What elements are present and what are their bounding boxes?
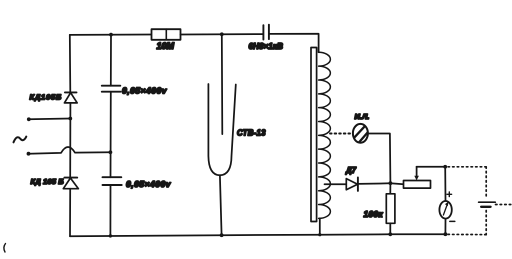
- wire resistor bottom to rail: [389, 223, 391, 234]
- wire meter bottom lead: [444, 219, 446, 234]
- wire top rail middle segment: [181, 33, 264, 35]
- wire capacitor column middle: [110, 92, 112, 178]
- svg-text:0,05×400v: 0,05×400v: [126, 179, 172, 189]
- wire dashed battery loop top: [448, 166, 486, 168]
- wire top rail right segment to transformer: [269, 34, 319, 53]
- wire dashed battery loop right upper: [485, 167, 487, 199]
- wire dashed battery loop right lower: [485, 211, 487, 235]
- wire transformer tap to diode Д7: [325, 183, 347, 185]
- svg-text:10М: 10М: [157, 41, 175, 51]
- node junction top of tube electrode: [220, 32, 224, 36]
- capacitor 0,05×400v upper: [102, 86, 168, 96]
- wire left column between diodes: [69, 103, 71, 178]
- node upper input terminal: [27, 117, 31, 121]
- wire capacitor column bottom: [109, 185, 111, 236]
- wire wiper to meter junction: [417, 166, 446, 168]
- wire left column: [69, 35, 72, 92]
- wire meter top lead: [444, 167, 446, 201]
- node junction bottom capacitor column: [109, 234, 112, 237]
- node junction diode/lamp/resistor: [389, 181, 393, 185]
- stray pen mark bottom left: [4, 244, 6, 253]
- lamp И.Л.: [350, 112, 370, 149]
- tube СТВ-13 envelope: [208, 84, 266, 175]
- wire lower terminal with hop over left column: [29, 147, 111, 154]
- wire junction down to resistor 100к: [389, 183, 391, 194]
- capacitor 6Н8×1кВ: [249, 25, 284, 51]
- transformer core: [311, 48, 317, 222]
- node junction between diodes: [68, 117, 72, 121]
- diode Д7: [345, 166, 358, 191]
- battery GB: [479, 202, 496, 207]
- node AC source symbol ~: [14, 137, 27, 143]
- node lower input terminal: [27, 152, 31, 156]
- node junction transformer bottom: [318, 233, 321, 236]
- svg-text:СТВ-13: СТВ-13: [237, 129, 266, 138]
- resistor 100к: [364, 194, 395, 224]
- node junction capacitor column middle: [109, 150, 113, 154]
- wire capacitor column top: [110, 35, 112, 86]
- wire left column bottom: [69, 189, 71, 237]
- wire diode to junction: [358, 182, 391, 185]
- node junction wiper/meter: [443, 165, 447, 169]
- wire transformer bottom to rail: [319, 218, 321, 234]
- wire lamp to junction: [368, 134, 391, 184]
- node junction resistor bottom: [388, 232, 392, 236]
- transformer winding L1: [319, 52, 331, 218]
- potentiometer R: [404, 167, 431, 188]
- node junction meter bottom: [444, 232, 448, 236]
- wire dashed battery side stub: [496, 204, 512, 206]
- node junction tube bottom: [220, 233, 224, 237]
- svg-text:И.Л.: И.Л.: [355, 112, 370, 121]
- diode КД105Б upper: [30, 92, 78, 103]
- tube СТВ-13 electrode from top: [221, 34, 224, 134]
- capacitor 0,05×400v lower: [103, 177, 172, 189]
- wire dashed tap to lamp: [330, 133, 353, 135]
- wire tube stem to bottom rail: [220, 175, 222, 235]
- wire to upper input terminal: [29, 118, 71, 121]
- svg-text:100к: 100к: [364, 209, 384, 219]
- svg-text:КД 105 Б: КД 105 Б: [31, 177, 65, 186]
- svg-text:КД105Б: КД105Б: [30, 92, 62, 101]
- diode КД105Б lower: [31, 177, 79, 189]
- meter PA1: [439, 192, 454, 221]
- wire dashed battery loop bottom: [447, 233, 486, 235]
- svg-text:0,05×400v: 0,05×400v: [122, 86, 168, 96]
- wire junction to potentiometer: [390, 182, 403, 185]
- resistor 10М: [152, 29, 181, 51]
- svg-text:Д7: Д7: [345, 166, 357, 175]
- node junction top of capacitor column: [109, 33, 113, 37]
- wire bottom rail: [70, 234, 445, 236]
- svg-text:6Н8×1кВ: 6Н8×1кВ: [249, 42, 284, 51]
- wire top rail left segment: [70, 34, 152, 36]
